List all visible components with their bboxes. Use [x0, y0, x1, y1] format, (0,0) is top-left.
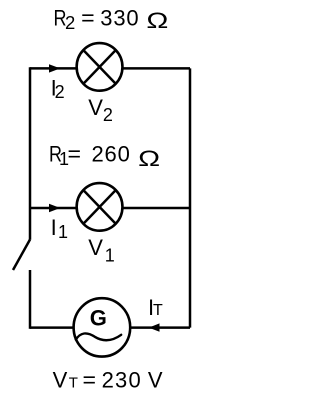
svg-text:330: 330 — [100, 5, 139, 30]
wire left vertical lower — [29, 270, 32, 329]
svg-text:T: T — [153, 302, 163, 319]
svg-text:2: 2 — [65, 12, 75, 33]
lamp V1 cross stroke 2 — [83, 190, 115, 224]
switch S1 blade (open) — [13, 240, 30, 271]
lamp V2 circle — [77, 43, 123, 91]
svg-text:T: T — [69, 375, 78, 392]
svg-text:=: = — [68, 141, 82, 166]
lamp V2 cross stroke 2 — [83, 50, 115, 84]
svg-text:1: 1 — [105, 246, 115, 266]
svg-text:G: G — [90, 306, 107, 331]
svg-text:=: = — [83, 368, 97, 393]
svg-text:V: V — [88, 95, 103, 120]
wire bottom horizontal — [30, 326, 190, 329]
arrow IT current direction — [149, 323, 160, 331]
wire right vertical — [189, 68, 192, 327]
lamp V1 cross stroke 1 — [83, 190, 115, 224]
lamp V1 circle — [77, 183, 123, 231]
svg-text:V: V — [53, 368, 68, 393]
generator sine wave — [76, 333, 121, 340]
wire left vertical upper — [29, 67, 32, 240]
svg-text:260: 260 — [92, 141, 131, 166]
wire middle branch horizontal — [30, 207, 190, 210]
wire top branch horizontal — [30, 67, 190, 70]
arrow I1 current direction — [49, 204, 60, 212]
svg-text:V: V — [88, 235, 103, 260]
svg-text:Ω: Ω — [138, 146, 160, 171]
svg-text:230: 230 — [102, 368, 142, 393]
svg-text:=: = — [81, 5, 95, 30]
svg-text:2: 2 — [55, 82, 65, 102]
svg-text:2: 2 — [103, 105, 113, 125]
svg-text:1: 1 — [58, 222, 68, 242]
svg-text:V: V — [148, 368, 163, 393]
lamp V2 cross stroke 1 — [83, 50, 115, 84]
svg-text:Ω: Ω — [146, 8, 168, 33]
svg-text:I: I — [51, 215, 57, 240]
arrow I2 current direction — [49, 64, 60, 72]
generator G circle — [74, 298, 131, 356]
